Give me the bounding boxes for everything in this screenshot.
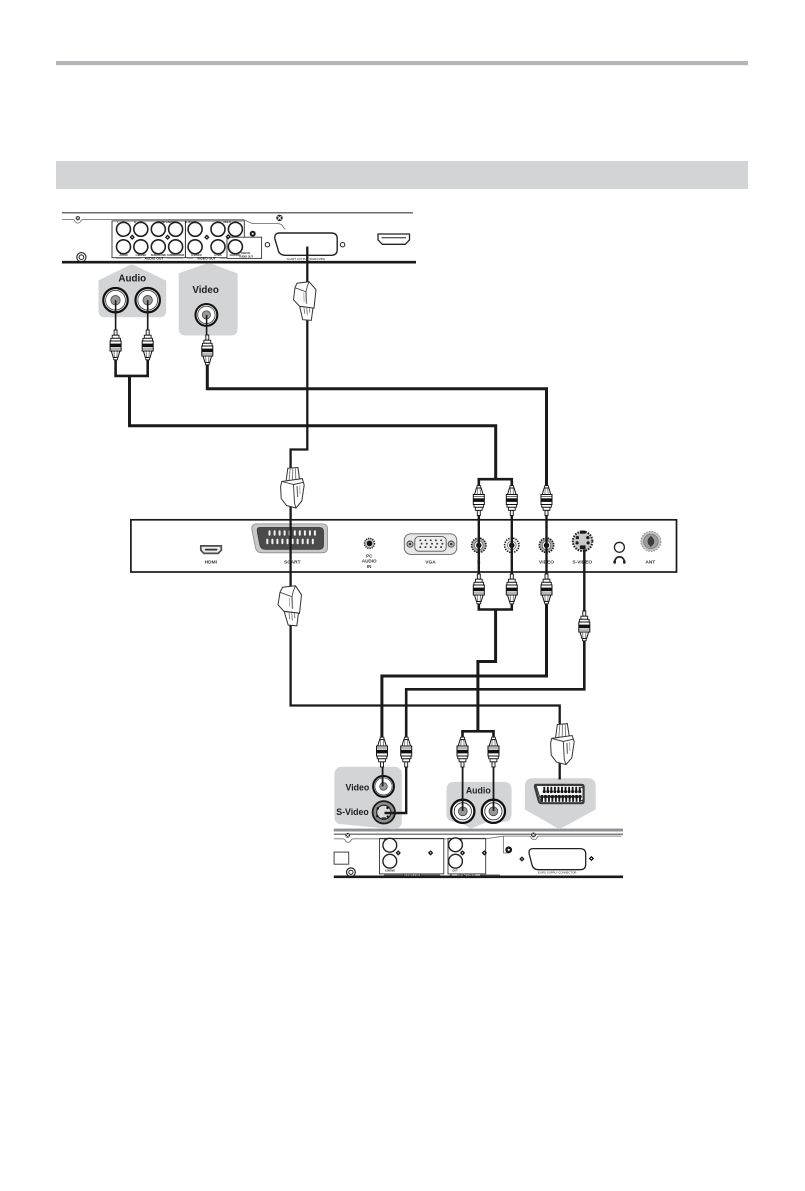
audio L RCA jack (bottom) bbox=[451, 800, 474, 823]
plug L above TV (pin down) bbox=[506, 486, 517, 516]
svg-text:Video: Video bbox=[346, 783, 370, 793]
svg-text:VIDEO: VIDEO bbox=[223, 221, 231, 224]
svg-text:IN: IN bbox=[384, 839, 387, 842]
audio L RCA jack bbox=[103, 288, 127, 312]
wire: video lead into bottom jack bbox=[382, 766, 384, 786]
wire: SCART cable top device to TV to VCR bbox=[291, 247, 560, 780]
double screw bbox=[347, 868, 356, 877]
S-VIDEO socket bbox=[573, 532, 593, 552]
wire: audio trunk down and across to TV bbox=[130, 376, 496, 479]
svg-text:S-VIDEO: S-VIDEO bbox=[185, 221, 195, 224]
plug audio R top (pin up) bbox=[142, 330, 153, 360]
wire: R through TV jack bbox=[478, 516, 480, 576]
svg-text:Audio: Audio bbox=[118, 273, 146, 284]
VIDEO RCA socket bbox=[539, 538, 553, 552]
svg-text:AUDIO: AUDIO bbox=[119, 253, 127, 257]
wire: audio trunk to bottom bubble bbox=[478, 610, 496, 732]
header rule bbox=[56, 61, 748, 65]
plug R above TV (pin down) bbox=[473, 486, 484, 516]
svg-text:ANT: ANT bbox=[645, 560, 655, 566]
plug s-video bottom (pin down) bbox=[401, 737, 412, 767]
wire: s-video lead into bottom jack bbox=[385, 766, 407, 813]
svg-text:IN: IN bbox=[367, 564, 372, 569]
panel inner contour bbox=[334, 836, 622, 842]
top gray strip bbox=[334, 829, 623, 832]
Video / S-Video callout bubble bbox=[334, 767, 401, 829]
double screw bottom-left bbox=[77, 253, 86, 262]
plug S-VIDEO below TV (pin up) bbox=[579, 611, 590, 641]
svg-text:L/MONO: L/MONO bbox=[385, 869, 395, 872]
coaxial digital audio out jack bbox=[228, 240, 242, 254]
svg-text:Video: Video bbox=[192, 285, 219, 296]
svg-text:S-Video: S-Video bbox=[336, 807, 369, 817]
svg-text:AUDIO OUT: AUDIO OUT bbox=[144, 257, 164, 261]
Video callout bubble bbox=[179, 263, 238, 335]
svg-text:EURO SUPPLY CONNECTOR: EURO SUPPLY CONNECTOR bbox=[538, 871, 576, 875]
wire: audio split above TV bbox=[479, 479, 512, 488]
Audio callout bubble bbox=[99, 265, 167, 318]
svg-text:COMPONENT: COMPONENT bbox=[158, 221, 175, 224]
section title bar bbox=[56, 161, 748, 189]
plug video bottom (pin down) bbox=[377, 737, 388, 767]
HDMI port on device bbox=[378, 234, 410, 244]
audio out jack box bbox=[112, 221, 185, 258]
scart plug 4 (into VCR scart) bbox=[551, 724, 575, 765]
svg-text:VIDEO OUT: VIDEO OUT bbox=[197, 257, 217, 261]
plug L below TV (pin up) bbox=[506, 574, 517, 604]
plug R below TV (pin up) bbox=[473, 574, 484, 604]
audio R RCA jack bbox=[136, 288, 160, 312]
SCART connector on device bbox=[275, 233, 337, 255]
SCART socket on VCR bbox=[529, 849, 586, 870]
wire: video run below TV to bottom video jack bbox=[382, 602, 547, 740]
wire: s-video run to bottom bbox=[406, 639, 584, 739]
video out RCA jacks bbox=[188, 222, 202, 236]
SCART socket bbox=[252, 524, 328, 553]
L RCA socket bbox=[505, 538, 519, 552]
panel inner contour bbox=[62, 220, 285, 229]
screw top-left bbox=[76, 216, 80, 220]
screw above SCART bbox=[277, 215, 283, 221]
wire: s-video from TV jack down bbox=[583, 550, 585, 613]
wire: R/L join below TV bbox=[479, 602, 512, 610]
scart plug 3 (into TV scart from below) bbox=[278, 586, 302, 626]
VGA connector bbox=[404, 534, 457, 555]
PC audio in minijack bbox=[365, 538, 375, 548]
wire: audio L jack to plug lead bbox=[115, 300, 117, 332]
wire: video jack lead bbox=[206, 315, 208, 336]
svg-text:S-VIDEO: S-VIDEO bbox=[572, 560, 592, 566]
bottom panel edge bbox=[334, 875, 623, 878]
video RCA jack (bottom) bbox=[373, 776, 394, 797]
audio R RCA jack (bottom) bbox=[482, 800, 505, 823]
S-Video jack (bottom) bbox=[373, 801, 395, 823]
HDMI port bbox=[201, 546, 222, 554]
plug audio L bottom (pin down) bbox=[457, 737, 468, 767]
wire: audio split bottom bbox=[463, 731, 494, 739]
plug audio R bottom (pin down) bbox=[488, 737, 499, 767]
left cutout rectangle bbox=[334, 852, 349, 864]
audio out box bbox=[380, 838, 444, 874]
Audio callout bubble (bottom) bbox=[447, 782, 512, 829]
svg-text:VIDEO OUT: VIDEO OUT bbox=[457, 873, 475, 877]
svg-text:R: R bbox=[134, 221, 136, 224]
svg-text:VGA: VGA bbox=[425, 560, 436, 566]
screw dark right of step bbox=[250, 231, 256, 237]
SCART side screws bbox=[265, 243, 269, 247]
wire: VIDEO through TV jack bbox=[545, 516, 547, 576]
top panel edge line bbox=[62, 212, 413, 214]
screw diamonds bbox=[130, 235, 135, 240]
plug video top (pin up) bbox=[202, 335, 213, 365]
svg-text:AUDIO OUT: AUDIO OUT bbox=[239, 256, 254, 259]
svg-text:SCART OUTPUT (RGB/CVBS): SCART OUTPUT (RGB/CVBS) bbox=[287, 257, 326, 261]
panel top edge bbox=[334, 833, 623, 835]
plug VIDEO below TV (pin up) bbox=[541, 574, 552, 604]
wire: audio R jack to plug lead bbox=[147, 300, 149, 332]
svg-text:SCART: SCART bbox=[284, 560, 301, 566]
svg-text:AUDIO OUT: AUDIO OUT bbox=[403, 873, 422, 877]
SCART connector graphic bbox=[535, 785, 584, 803]
scart plug 1 (below DVD scart) bbox=[294, 282, 317, 321]
R RCA socket bbox=[472, 538, 486, 552]
coaxial digital audio out box bbox=[227, 237, 262, 258]
svg-text:IN: IN bbox=[460, 839, 463, 842]
wire: audio leads into bottom jacks bbox=[462, 766, 464, 811]
svg-text:HDMI: HDMI bbox=[205, 560, 218, 566]
svg-text:Audio: Audio bbox=[466, 785, 492, 795]
svg-text:OUT: OUT bbox=[452, 869, 458, 872]
headphone jack bbox=[614, 542, 624, 552]
SCART callout bubble (bottom) bbox=[525, 778, 596, 829]
wire: L through TV jack bbox=[511, 516, 513, 576]
wire: audio pair join below plugs bbox=[116, 357, 148, 376]
plug audio L top (pin up) bbox=[110, 330, 121, 360]
plug VIDEO above TV (pin down) bbox=[541, 486, 552, 516]
audio out RCA jacks (2 rows x 4) bbox=[117, 222, 131, 236]
video RCA jack bbox=[196, 304, 218, 326]
bottom panel edge bbox=[62, 261, 416, 264]
screws bbox=[346, 833, 350, 837]
svg-text:SUBWOOFER: SUBWOOFER bbox=[167, 253, 184, 257]
scart plug 2 (into TV scart from above) bbox=[281, 468, 305, 509]
ANT aerial socket bbox=[641, 531, 661, 551]
video out box bbox=[448, 838, 486, 874]
video out jack box bbox=[185, 221, 244, 258]
wire: video run to TV bbox=[207, 361, 546, 488]
